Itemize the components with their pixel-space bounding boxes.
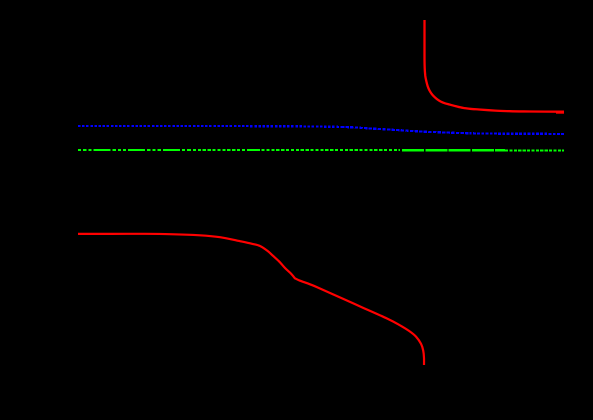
curve red lower (mu/kT)	[78, 234, 424, 365]
curve green dashed far left (overlapping phases make long runs)	[78, 149, 188, 151]
curve blue dotted left flat	[78, 126, 341, 127]
curve green dashed right	[505, 149, 564, 151]
curve red upper (diverging at Tc)	[425, 20, 565, 112]
curve green dashed medium run	[248, 149, 258, 151]
curve green dashed dense middle	[402, 149, 505, 152]
curve blue dotted right flat	[470, 132, 564, 135]
curve green dashed mid-left short dashes	[188, 149, 400, 151]
curve blue dotted declining middle (dense)	[341, 127, 470, 133]
curve red upper overlap end	[556, 111, 564, 113]
